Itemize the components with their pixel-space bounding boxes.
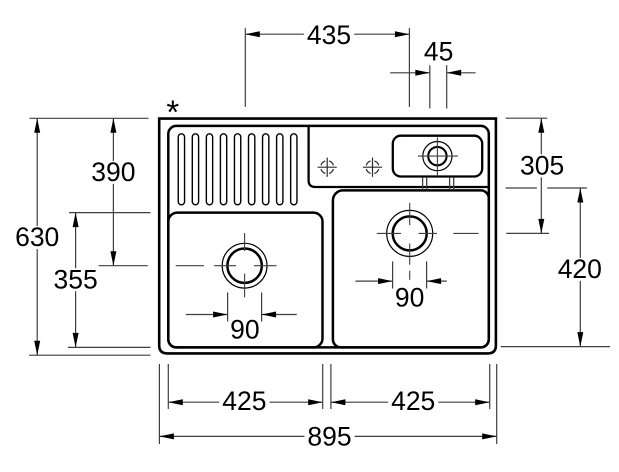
- dimension line 425 right: [331, 401, 490, 403]
- svg-text:*: *: [166, 94, 179, 131]
- extension line: right bowl left edge: [330, 364, 332, 409]
- right bowl: [333, 190, 489, 347]
- arrowhead 45 right: [447, 70, 462, 76]
- dimension line 45 left tail: [390, 72, 430, 74]
- extension line: 45 right: [446, 65, 448, 108]
- extension line: sink bottom edge: [29, 354, 151, 356]
- arrowhead 425L left: [168, 399, 183, 405]
- arrowhead 435 left: [245, 31, 259, 37]
- dimension line 305: [540, 118, 542, 233]
- arrowhead 390 bottom: [110, 251, 116, 266]
- extension line: right bowl top edge b: [547, 187, 587, 189]
- label background 420: [555, 258, 605, 281]
- dimension line 90 left bowl left tail: [186, 314, 228, 316]
- label background 355: [51, 268, 101, 291]
- svg-text:45: 45: [424, 37, 453, 67]
- dimension line 630: [36, 118, 38, 355]
- faucet box legs: [422, 177, 424, 190]
- extension line: 435 right (right drain center): [408, 28, 410, 107]
- extension line: left bowl right edge: [322, 364, 324, 409]
- dimension line 90 right bowl right tail: [427, 280, 447, 282]
- svg-text:425: 425: [391, 386, 435, 416]
- sink rim inner edge: [168, 126, 489, 348]
- svg-text:90: 90: [230, 314, 259, 344]
- extension line: right bowl top edge a: [506, 187, 537, 189]
- arrowhead 305 top: [538, 118, 544, 133]
- extension line: 45 left: [429, 65, 431, 108]
- arrowhead 425L right: [308, 399, 323, 405]
- dimension line 355: [75, 213, 77, 348]
- arrowhead 425R left: [331, 399, 346, 405]
- extension line: left drain 90 left: [227, 293, 229, 322]
- svg-text:435: 435: [307, 20, 351, 50]
- arrowhead 895 left: [159, 433, 174, 439]
- arrowhead 425R right: [475, 399, 490, 405]
- arrowhead 90L right: [262, 312, 277, 318]
- dimension line 90 left bowl right tail: [262, 314, 297, 316]
- fixing marker at x=372.5: [363, 158, 382, 177]
- extension line: left bowl top edge: [69, 212, 151, 214]
- extension line: sink right edge: [496, 364, 498, 444]
- dimension line 895: [159, 435, 496, 437]
- left bowl drain: [222, 243, 267, 288]
- arrowhead 390 top: [110, 118, 116, 133]
- drainer/deck divider: [309, 125, 488, 187]
- svg-text:425: 425: [222, 386, 266, 416]
- extension line: bowl bottom edge: [68, 346, 151, 348]
- arrowhead 355 bottom: [73, 333, 79, 348]
- svg-text:895: 895: [307, 422, 351, 452]
- extension line: right bowl bottom edge: [501, 346, 610, 348]
- drainer ribs: [178, 134, 297, 205]
- arrowhead 895 right: [482, 433, 497, 439]
- svg-text:305: 305: [520, 150, 564, 180]
- extension line: right drain center: [506, 232, 549, 234]
- extension line: 435 left (left drain center): [244, 28, 246, 107]
- extension line: right drain 90 left: [392, 261, 394, 288]
- tap hole: [423, 142, 452, 171]
- extension line: left of sink top edge: [30, 117, 149, 119]
- svg-text:355: 355: [53, 264, 97, 294]
- sink outer outline: [159, 119, 496, 354]
- svg-text:390: 390: [91, 157, 135, 187]
- extension line: sink left edge: [158, 364, 160, 444]
- dimension line 420: [579, 188, 581, 347]
- right drain centerlines: [377, 203, 479, 280]
- fixing marker at x=327.2: [318, 158, 337, 177]
- label background 435: [304, 24, 354, 47]
- faucet deck box: [393, 136, 482, 177]
- left bowl: [168, 213, 322, 348]
- dimension line 90 right bowl left tail: [355, 280, 392, 282]
- arrowhead 630 bottom: [34, 341, 40, 356]
- svg-text:420: 420: [558, 254, 602, 284]
- label background 305: [517, 154, 567, 177]
- arrowhead 90R left: [378, 278, 393, 284]
- tap hole centerlines: [418, 137, 458, 176]
- label background 425: [388, 390, 438, 413]
- dimension line 435: [245, 33, 409, 35]
- extension line: right drain 90 right: [426, 261, 428, 288]
- label background 390: [88, 161, 138, 184]
- left drain centerlines: [176, 233, 277, 297]
- label background 425: [219, 390, 269, 413]
- right bowl drain: [387, 210, 433, 256]
- svg-text:90: 90: [395, 283, 424, 313]
- arrowhead 630 top: [34, 118, 40, 133]
- arrowhead 420 bottom: [577, 332, 583, 347]
- extension line: left drain 90 right: [261, 293, 263, 322]
- dimension line 45 right tail: [447, 72, 476, 74]
- arrowhead 435 right: [395, 31, 410, 37]
- arrowhead 305 bottom: [538, 219, 544, 234]
- arrowhead 90R right: [427, 278, 442, 284]
- arrowhead 45 left: [415, 70, 430, 76]
- extension line: right of sink top edge: [506, 117, 548, 119]
- svg-text:630: 630: [15, 222, 59, 252]
- arrowhead 355 top: [73, 213, 79, 228]
- arrowhead 90L left: [213, 312, 228, 318]
- extension line: rim right edge: [489, 364, 491, 409]
- label background 895: [304, 425, 354, 448]
- dimension line 425 left: [168, 401, 322, 403]
- extension line: rim left edge: [167, 364, 169, 409]
- extension line: left drain center: [99, 265, 148, 267]
- arrowhead 420 top: [577, 188, 583, 203]
- label background 630: [12, 226, 62, 249]
- dimension line 390: [112, 118, 114, 265]
